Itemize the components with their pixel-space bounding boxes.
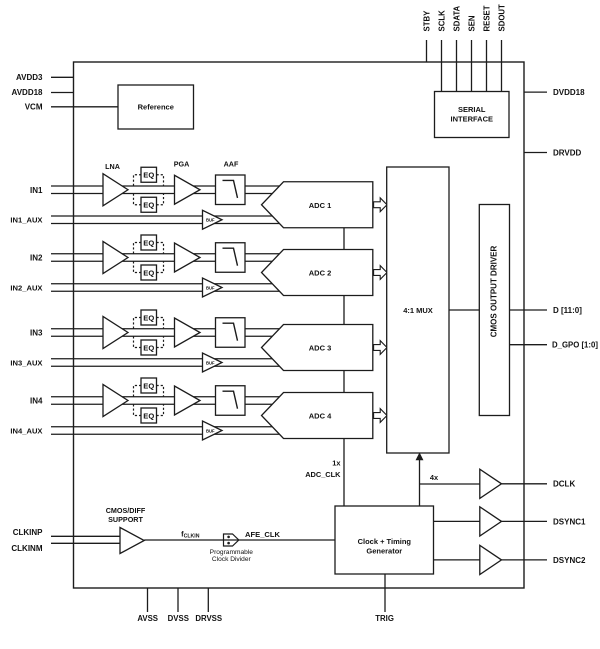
svg-text:LNA: LNA — [105, 162, 120, 171]
svg-text:AFE_CLK: AFE_CLK — [245, 530, 281, 539]
svg-text:CMOS/DIFF: CMOS/DIFF — [106, 506, 146, 515]
svg-text:1x: 1x — [332, 459, 341, 468]
wire pin TRIG — [384, 574, 386, 612]
amplifier PGA3 — [175, 318, 201, 347]
svg-text:D [11:0]: D [11:0] — [553, 306, 582, 315]
EQ1a bypass dashed wire — [134, 175, 164, 186]
svg-text:Generator: Generator — [366, 546, 402, 555]
wire ADC_CLK 1x net — [343, 228, 345, 506]
wire pin RESET — [486, 40, 488, 92]
wire IN4 plus — [51, 396, 282, 398]
svg-text:DVDD18: DVDD18 — [553, 88, 585, 97]
wire MUX clock with arrow — [419, 458, 421, 506]
svg-text:EQ: EQ — [143, 313, 154, 322]
block U_MUX 4:1 mux — [387, 167, 449, 453]
ADC 4 converter — [262, 393, 373, 439]
wire gen to DSYNC2 buffer — [434, 559, 480, 561]
svg-text:ADC_CLK: ADC_CLK — [305, 470, 341, 479]
wire pin DSYNC1 — [502, 520, 548, 522]
svg-text:CLKINM: CLKINM — [11, 544, 42, 553]
block EQ2a equalizer — [141, 235, 157, 250]
svg-text:SEN: SEN — [468, 15, 477, 31]
svg-text:CMOS OUTPUT DRIVER: CMOS OUTPUT DRIVER — [490, 246, 499, 338]
wire CLKINM — [51, 542, 121, 544]
ADC 3 converter — [262, 325, 373, 371]
svg-text:Reference: Reference — [138, 103, 174, 112]
block EQ4a equalizer — [141, 378, 157, 393]
wire pin DCLK — [502, 483, 548, 485]
wire fCLKIN to divider to gen — [144, 539, 335, 541]
svg-text:STBY: STBY — [423, 10, 432, 32]
svg-text:IN1: IN1 — [30, 186, 43, 195]
svg-text:IN4: IN4 — [30, 397, 43, 406]
svg-text:IN1_AUX: IN1_AUX — [10, 216, 42, 225]
wire pin DVSS — [177, 588, 179, 612]
block EQ4b equalizer — [141, 408, 157, 423]
wire IN2 minus — [51, 260, 282, 262]
arrow ADC3 output to MUX — [374, 341, 387, 355]
svg-text:VCM: VCM — [25, 103, 43, 112]
wire IN2_AUX plus — [51, 283, 282, 285]
wire IN1 plus — [51, 185, 282, 187]
filter AAF3 anti-alias — [216, 318, 246, 348]
wire pin AVSS — [147, 588, 149, 612]
filter AAF4 anti-alias — [216, 386, 246, 416]
wire IN3 plus — [51, 328, 282, 330]
buffer DSYNC1 driver — [480, 507, 502, 536]
amplifier LNA1 — [103, 174, 128, 206]
wire pin DSYNC2 — [502, 559, 548, 561]
svg-text:SCLK: SCLK — [438, 10, 447, 32]
buffer BUF4 — [203, 421, 223, 440]
svg-text:EQ: EQ — [143, 343, 154, 352]
svg-text:DVSS: DVSS — [168, 614, 189, 623]
EQ3b bypass dashed wire — [134, 336, 164, 347]
wire IN1_AUX plus — [51, 215, 282, 217]
svg-text:DSYNC2: DSYNC2 — [553, 556, 586, 565]
svg-text:AVDD3: AVDD3 — [16, 73, 43, 82]
wire pin D_GPO bus — [510, 344, 548, 346]
block EQ3b equalizer — [141, 340, 157, 355]
svg-text:Programmable: Programmable — [210, 549, 254, 556]
svg-text:EQ: EQ — [143, 268, 154, 277]
wire pin STBY — [426, 40, 428, 62]
svg-text:AVDD18: AVDD18 — [12, 88, 44, 97]
EQ3a bypass dashed wire — [134, 318, 164, 329]
svg-text:CLKINP: CLKINP — [13, 528, 43, 537]
block EQ3a equalizer — [141, 310, 157, 325]
wire pin AVDD18 — [51, 92, 74, 94]
wire pin DVDD18 — [524, 91, 547, 93]
amplifier PGA4 — [175, 386, 201, 415]
svg-text:PGA: PGA — [174, 160, 190, 169]
svg-text:INTERFACE: INTERFACE — [450, 115, 493, 124]
arrow ADC2 output to MUX — [374, 266, 387, 280]
arrow ADC1 output to MUX — [374, 198, 387, 212]
wire MUX to driver — [449, 309, 479, 311]
block EQ1a equalizer — [141, 167, 157, 182]
svg-text:RESET: RESET — [483, 5, 492, 31]
wire 4x clock to DCLK buffer — [420, 483, 480, 485]
buffer BUF2 — [203, 278, 223, 297]
svg-text:ADC 4: ADC 4 — [309, 412, 332, 421]
block U_DRV cmos output driver — [479, 205, 509, 416]
wire pin D bus — [510, 309, 548, 311]
svg-text:EQ: EQ — [143, 411, 154, 420]
svg-text:4:1 MUX: 4:1 MUX — [403, 306, 433, 315]
ADC 1 converter — [262, 182, 373, 228]
svg-text:IN2: IN2 — [30, 254, 43, 263]
block U_SERIAL serial interface — [435, 92, 510, 138]
wire IN1 minus — [51, 193, 282, 195]
chip outline — [74, 62, 525, 588]
svg-text:DCLK: DCLK — [553, 480, 575, 489]
amplifier PGA2 — [175, 243, 201, 272]
wire IN4_AUX plus — [51, 426, 282, 428]
buffer DSYNC2 driver — [480, 545, 502, 574]
wire IN4 minus — [51, 403, 282, 405]
svg-text:ADC 1: ADC 1 — [309, 201, 332, 210]
svg-text:DSYNC1: DSYNC1 — [553, 517, 586, 526]
wire IN2_AUX minus — [51, 290, 282, 292]
EQ1b bypass dashed wire — [134, 194, 164, 205]
svg-text:DRVDD: DRVDD — [553, 148, 582, 157]
svg-text:EQ: EQ — [143, 238, 154, 247]
amplifier LNA2 — [103, 242, 128, 274]
amplifier LNA4 — [103, 385, 128, 417]
svg-text:Clock + Timing: Clock + Timing — [358, 537, 412, 546]
wire pin AVDD3 — [51, 76, 74, 78]
EQ2a bypass dashed wire — [134, 243, 164, 254]
svg-text:4x: 4x — [430, 473, 439, 482]
svg-text:IN2_AUX: IN2_AUX — [10, 283, 42, 292]
wire pin SEN — [471, 40, 473, 92]
svg-text:ADC 2: ADC 2 — [309, 269, 332, 278]
filter AAF2 anti-alias — [216, 243, 246, 273]
svg-text:D_GPO [1:0]: D_GPO [1:0] — [552, 341, 598, 350]
svg-text:BUF: BUF — [206, 428, 215, 433]
ADC 2 converter — [262, 250, 373, 296]
buffer CMOS/DIFF support — [120, 528, 144, 554]
svg-text:ADC 3: ADC 3 — [309, 344, 332, 353]
wire gen to DSYNC1 buffer — [434, 520, 480, 522]
svg-text:SERIAL: SERIAL — [458, 105, 486, 114]
wire IN4_AUX minus — [51, 433, 282, 435]
block U_CLK clock timing generator — [335, 506, 434, 574]
svg-text:SDATA: SDATA — [453, 5, 462, 31]
svg-text:BUF: BUF — [206, 285, 215, 290]
buffer DCLK driver — [480, 469, 502, 498]
EQ4b bypass dashed wire — [134, 404, 164, 415]
svg-text:AVSS: AVSS — [137, 614, 158, 623]
svg-text:Clock Divider: Clock Divider — [212, 556, 252, 563]
wire IN1_AUX minus — [51, 223, 282, 225]
wire pin SCLK — [441, 40, 443, 92]
amplifier PGA1 — [175, 175, 201, 204]
wire IN3_AUX minus — [51, 365, 282, 367]
wire pin DRVSS — [207, 588, 209, 612]
svg-text:EQ: EQ — [143, 171, 154, 180]
filter AAF1 anti-alias — [216, 175, 246, 205]
wire pin SDATA — [456, 40, 458, 92]
wire pin SDOUT — [501, 40, 503, 92]
svg-text:SUPPORT: SUPPORT — [108, 515, 143, 524]
block EQ1b equalizer — [141, 197, 157, 212]
wire CLKINP — [51, 535, 121, 537]
arrow ADC4 output to MUX — [374, 409, 387, 423]
wire pin VCM to reference — [51, 106, 118, 108]
buffer BUF1 — [203, 210, 223, 229]
svg-text:IN3_AUX: IN3_AUX — [10, 358, 42, 367]
svg-text:EQ: EQ — [143, 381, 154, 390]
wire pin DRVDD — [524, 152, 547, 154]
buffer BUF3 — [203, 353, 223, 372]
svg-text:DRVSS: DRVSS — [195, 614, 222, 623]
divider symbol programmable clock divider — [224, 534, 239, 546]
amplifier LNA3 — [103, 317, 128, 349]
svg-text:EQ: EQ — [143, 201, 154, 210]
EQ4a bypass dashed wire — [134, 386, 164, 397]
svg-text:BUF: BUF — [206, 218, 215, 223]
wire IN2 plus — [51, 253, 282, 255]
svg-text:TRIG: TRIG — [375, 614, 394, 623]
svg-text:SDOUT: SDOUT — [498, 4, 507, 32]
svg-text:IN4_AUX: IN4_AUX — [10, 426, 42, 435]
EQ2b bypass dashed wire — [134, 261, 164, 272]
wire IN3_AUX plus — [51, 358, 282, 360]
block U_REF reference — [118, 85, 194, 129]
svg-text:IN3: IN3 — [30, 329, 43, 338]
svg-text:BUF: BUF — [206, 360, 215, 365]
svg-text:AAF: AAF — [224, 160, 239, 169]
block EQ2b equalizer — [141, 265, 157, 280]
wire IN3 minus — [51, 335, 282, 337]
